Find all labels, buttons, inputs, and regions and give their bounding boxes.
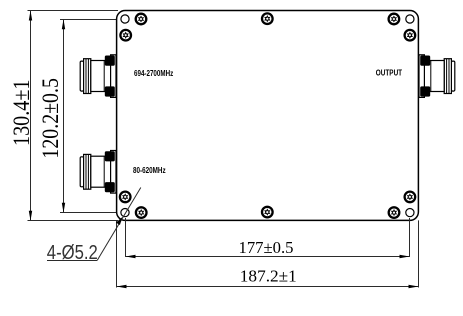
screw top-right B — [405, 30, 416, 41]
mounting hole top-right — [406, 15, 414, 23]
extension line below box left edge — [116, 220, 118, 287]
screw bottom-left A — [120, 192, 131, 203]
mounting hole bottom-right — [406, 209, 414, 217]
screw bottom-left B — [136, 207, 147, 218]
svg-text:80-620MHz: 80-620MHz — [133, 166, 166, 175]
dimension line 177±0.5 — [126, 256, 410, 258]
svg-text:694-2700MHz: 694-2700MHz — [134, 69, 173, 78]
extension line top edge — [28, 10, 119, 12]
extension line bottom edge — [28, 220, 119, 222]
screw top-right A — [389, 14, 400, 25]
svg-text:187.2±1: 187.2±1 — [240, 267, 297, 286]
screw top-left A — [136, 14, 147, 25]
extension line below box right edge — [418, 220, 420, 287]
screw bottom-right B — [389, 207, 400, 218]
extension line below bottom-right hole — [409, 218, 411, 257]
connector J3 (OUTPUT, right side) — [419, 55, 455, 98]
connector J1 (694-2700MHz) — [80, 55, 116, 98]
screw top-middle — [262, 13, 273, 24]
dimension line 187.2±1 — [117, 286, 419, 288]
extension line below bottom-left hole — [125, 218, 127, 257]
mounting hole top-left — [121, 15, 129, 23]
svg-text:120.2±0.5: 120.2±0.5 — [37, 78, 63, 159]
connector J2 (80-620MHz) — [80, 151, 116, 194]
screw bottom-right A — [405, 192, 416, 203]
dimension line 120.2±0.5 — [63, 19, 65, 213]
screw bottom-middle — [262, 207, 273, 218]
svg-text:4-Ø5.2: 4-Ø5.2 — [47, 242, 98, 264]
screw top-left B — [120, 30, 131, 41]
extension line bottom-left hole center — [60, 212, 121, 214]
leader line 4-Ø5.2 — [97, 188, 141, 261]
svg-text:130.4±1: 130.4±1 — [9, 80, 35, 147]
extension line top-left hole center — [60, 19, 121, 21]
svg-text:177±0.5: 177±0.5 — [239, 238, 294, 257]
enclosure box — [117, 11, 419, 221]
dimension line 130.4±1 — [30, 11, 32, 221]
mounting hole bottom-left — [121, 209, 129, 217]
svg-text:OUTPUT: OUTPUT — [376, 69, 402, 78]
